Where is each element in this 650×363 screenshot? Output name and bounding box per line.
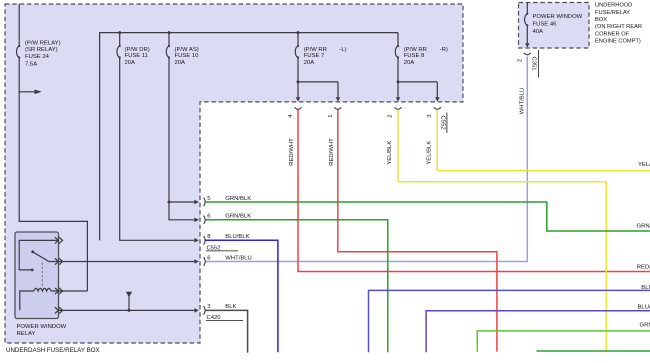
splice junction on BLK wire — [128, 309, 131, 312]
connector C552 pin 4 socket — [295, 107, 302, 109]
connector C552 label (row) — [206, 245, 238, 251]
connector pin 6 WHT/BLU arrow — [194, 259, 198, 264]
wire RED/WHT pin4 run — [298, 110, 650, 272]
svg-text:40A: 40A — [533, 29, 544, 35]
connector C552 pin 2 arrow — [396, 97, 401, 101]
svg-text:BLK: BLK — [225, 304, 236, 310]
connector pin 6 socket — [204, 216, 206, 225]
svg-text:(P/W RR: (P/W RR — [404, 47, 427, 53]
svg-text:7.5A: 7.5A — [25, 61, 37, 67]
wire RED/WHT pin1 run — [338, 110, 497, 352]
splice stub with down triangle — [126, 292, 132, 311]
svg-text:-L): -L) — [339, 47, 346, 53]
svg-text:(P/W RELAY): (P/W RELAY) — [25, 40, 61, 46]
svg-text:RED/WHT: RED/WHT — [637, 264, 650, 270]
svg-text:20A: 20A — [125, 60, 136, 66]
underdash fuse/relay box (lavender L-shaped box) — [5, 4, 463, 343]
junction bus-fuse7 — [297, 31, 300, 34]
wire GRN/BLK row6 — [206, 220, 388, 352]
svg-text:C351: C351 — [530, 56, 536, 70]
wire GRN/BLK row5 — [206, 202, 650, 231]
row 3 BLK labels — [207, 304, 236, 310]
power window relay box — [15, 232, 59, 319]
wire top bus — [100, 33, 398, 241]
svg-text:YEL/BLK: YEL/BLK — [427, 141, 433, 165]
svg-text:FUSE 11: FUSE 11 — [125, 53, 148, 59]
svg-text:2: 2 — [517, 59, 523, 62]
relay upper contact — [31, 250, 34, 253]
fuse46 exit arrowhead — [525, 43, 530, 47]
svg-text:(ON RIGHT REAR: (ON RIGHT REAR — [595, 24, 642, 30]
row 5 labels — [207, 196, 251, 202]
svg-text:GRN/BLK: GRN/BLK — [225, 214, 251, 220]
relay pin3 chevrons — [55, 288, 63, 294]
svg-text:20A: 20A — [175, 60, 186, 66]
connector C552 pin 3 socket — [434, 107, 441, 109]
svg-text:UNDERHOOD: UNDERHOOD — [595, 3, 632, 9]
svg-text:1: 1 — [328, 114, 334, 117]
svg-text:FUSE 10: FUSE 10 — [175, 53, 200, 59]
underhood box note — [595, 3, 642, 45]
svg-text:WHT/BLU: WHT/BLU — [225, 255, 252, 261]
wire fuse24 feed — [18, 4, 87, 291]
svg-text:(P/W AS): (P/W AS) — [175, 47, 199, 53]
wire WHT/BLU run — [206, 57, 528, 262]
svg-text:BLU/BLK: BLU/BLK — [638, 305, 650, 311]
fuse F8 symbol — [395, 46, 398, 58]
wire fuse7 branch — [297, 33, 338, 98]
wire fuse10 branch — [168, 33, 195, 220]
svg-text:RED/WHT: RED/WHT — [289, 138, 295, 166]
svg-text:POWER WINDOW: POWER WINDOW — [17, 324, 67, 330]
relay internal: blade to pin2 — [48, 261, 58, 263]
svg-text:(SR RELAY): (SR RELAY) — [25, 47, 58, 53]
underhood fuse/relay box (small lavender box) — [519, 3, 590, 49]
relay pin3 wire from fuse24 — [59, 290, 88, 292]
svg-text:CORNER OF: CORNER OF — [595, 31, 630, 37]
svg-text:RED/WHT: RED/WHT — [329, 138, 335, 166]
svg-text:GRN/BLK: GRN/BLK — [637, 224, 650, 230]
arrow marker on fuse24 wire — [19, 90, 42, 95]
connector pin 5 arrow — [194, 200, 198, 205]
relay pin2 chevrons — [55, 258, 63, 264]
svg-text:-R): -R) — [440, 47, 448, 53]
fuse F46 symbol — [525, 14, 528, 25]
fuse F24 7.5A symbol — [17, 46, 20, 58]
svg-text:C420: C420 — [207, 315, 222, 321]
svg-text:(P/W DR): (P/W DR) — [125, 47, 150, 53]
svg-text:20A: 20A — [404, 60, 415, 66]
wire YEL/BLK pin3 run — [437, 110, 650, 171]
svg-text:GRN/RED: GRN/RED — [640, 323, 650, 329]
row 8 labels — [207, 234, 249, 240]
svg-text:GRN/BLK: GRN/BLK — [225, 196, 251, 202]
svg-text:FUSE 46: FUSE 46 — [533, 21, 558, 27]
svg-text:20A: 20A — [304, 60, 315, 66]
junction bus-fuse10 — [168, 31, 171, 34]
relay mechanical link (dashed) — [41, 263, 43, 289]
relay pin4 chevrons — [55, 307, 63, 313]
connector pin 6 arrow — [194, 218, 198, 223]
fuse F46 wire — [526, 3, 528, 44]
relay label — [17, 324, 67, 337]
fuse F8 label — [404, 47, 448, 66]
svg-text:YEL/BLK: YEL/BLK — [638, 162, 650, 168]
svg-text:BLU/BLK: BLU/BLK — [225, 234, 249, 240]
row 6 labels — [207, 214, 251, 220]
relay lower contact — [31, 269, 34, 272]
svg-text:FUSE 8: FUSE 8 — [404, 53, 425, 59]
connector pin 5 socket — [204, 198, 206, 207]
fuse46 connector arc — [524, 53, 531, 55]
relay pin2 wire to connector row WHT/BLU — [59, 261, 195, 263]
relay pin1 chevrons — [55, 237, 63, 243]
svg-text:FUSE 7: FUSE 7 — [304, 53, 325, 59]
fuse F46 label — [533, 14, 583, 35]
svg-text:POWER WINDOW: POWER WINDOW — [533, 14, 583, 20]
wire BLU (violet) to right edge — [426, 311, 650, 352]
wire BLK run — [206, 310, 248, 352]
fuse F10 symbol — [166, 46, 169, 58]
relay switch blade — [33, 252, 48, 261]
wire fuse8 branch — [397, 33, 437, 98]
connector C420 pin 3 socket — [204, 306, 206, 315]
svg-text:C552: C552 — [207, 245, 221, 251]
fuse F7 symbol — [295, 46, 298, 58]
connector C552 pin 8 socket — [204, 236, 206, 245]
svg-text:BLU/WHT: BLU/WHT — [641, 285, 650, 291]
svg-text:BOX: BOX — [595, 17, 607, 23]
svg-text:YEL/BLK: YEL/BLK — [387, 141, 393, 165]
wire GRN (bright) to right edge — [477, 331, 650, 352]
connector C552 pin 4 arrow — [296, 97, 301, 101]
svg-text:C552: C552 — [440, 116, 446, 130]
relay coil — [20, 288, 59, 310]
junction node fuse8 split — [397, 80, 400, 83]
connector C552 pin 2 socket — [395, 107, 402, 109]
relay pin4 ground wire BLK row — [59, 309, 195, 311]
connector C420 pin 3 arrow — [194, 308, 198, 313]
connector C552 label (rotated) — [440, 113, 447, 134]
svg-text:RELAY: RELAY — [17, 331, 36, 337]
svg-text:(P/W RR: (P/W RR — [304, 47, 327, 53]
junction node fuse10 split — [168, 201, 171, 204]
junction node fuse7 split — [297, 80, 300, 83]
connector C552 pin 8 arrow — [194, 238, 198, 243]
fuse F7 label — [304, 47, 347, 66]
relay internal: pin1 to lower contact — [19, 240, 58, 270]
connector C420 label — [206, 315, 243, 321]
row 6 WHT/BLU labels — [207, 255, 252, 261]
svg-text:ENGINE COMPT): ENGINE COMPT) — [595, 39, 641, 45]
svg-text:UNDERDASH FUSE/RELAY BOX: UNDERDASH FUSE/RELAY BOX — [6, 347, 100, 354]
wire YEL/BLK pin2 run — [398, 110, 606, 353]
wire BLU to right edge — [369, 290, 650, 352]
connector C552 pin 1 arrow — [336, 97, 341, 101]
wire GRN (dark) bottom right — [537, 350, 650, 352]
wire BLU/BLK row8 — [206, 240, 278, 352]
connector C552 pin 3 arrow — [435, 97, 440, 101]
fuse F11 symbol — [117, 46, 120, 58]
fuse F10 label — [175, 47, 200, 66]
fuse F11 label — [125, 47, 150, 66]
connector C351 label (rotated) — [530, 50, 538, 78]
fuse F24 label — [25, 40, 61, 67]
wire fuse11 branch — [119, 33, 195, 241]
svg-text:2: 2 — [387, 114, 393, 117]
svg-text:WHT/BLU: WHT/BLU — [519, 88, 525, 115]
svg-text:FUSE 24: FUSE 24 — [25, 54, 50, 60]
connector pin 6 WHT/BLU socket — [204, 257, 206, 266]
svg-text:FUSE/RELAY: FUSE/RELAY — [595, 10, 630, 16]
junction bus-fuse11 — [118, 31, 121, 34]
connector C552 pin 1 socket — [334, 107, 341, 109]
